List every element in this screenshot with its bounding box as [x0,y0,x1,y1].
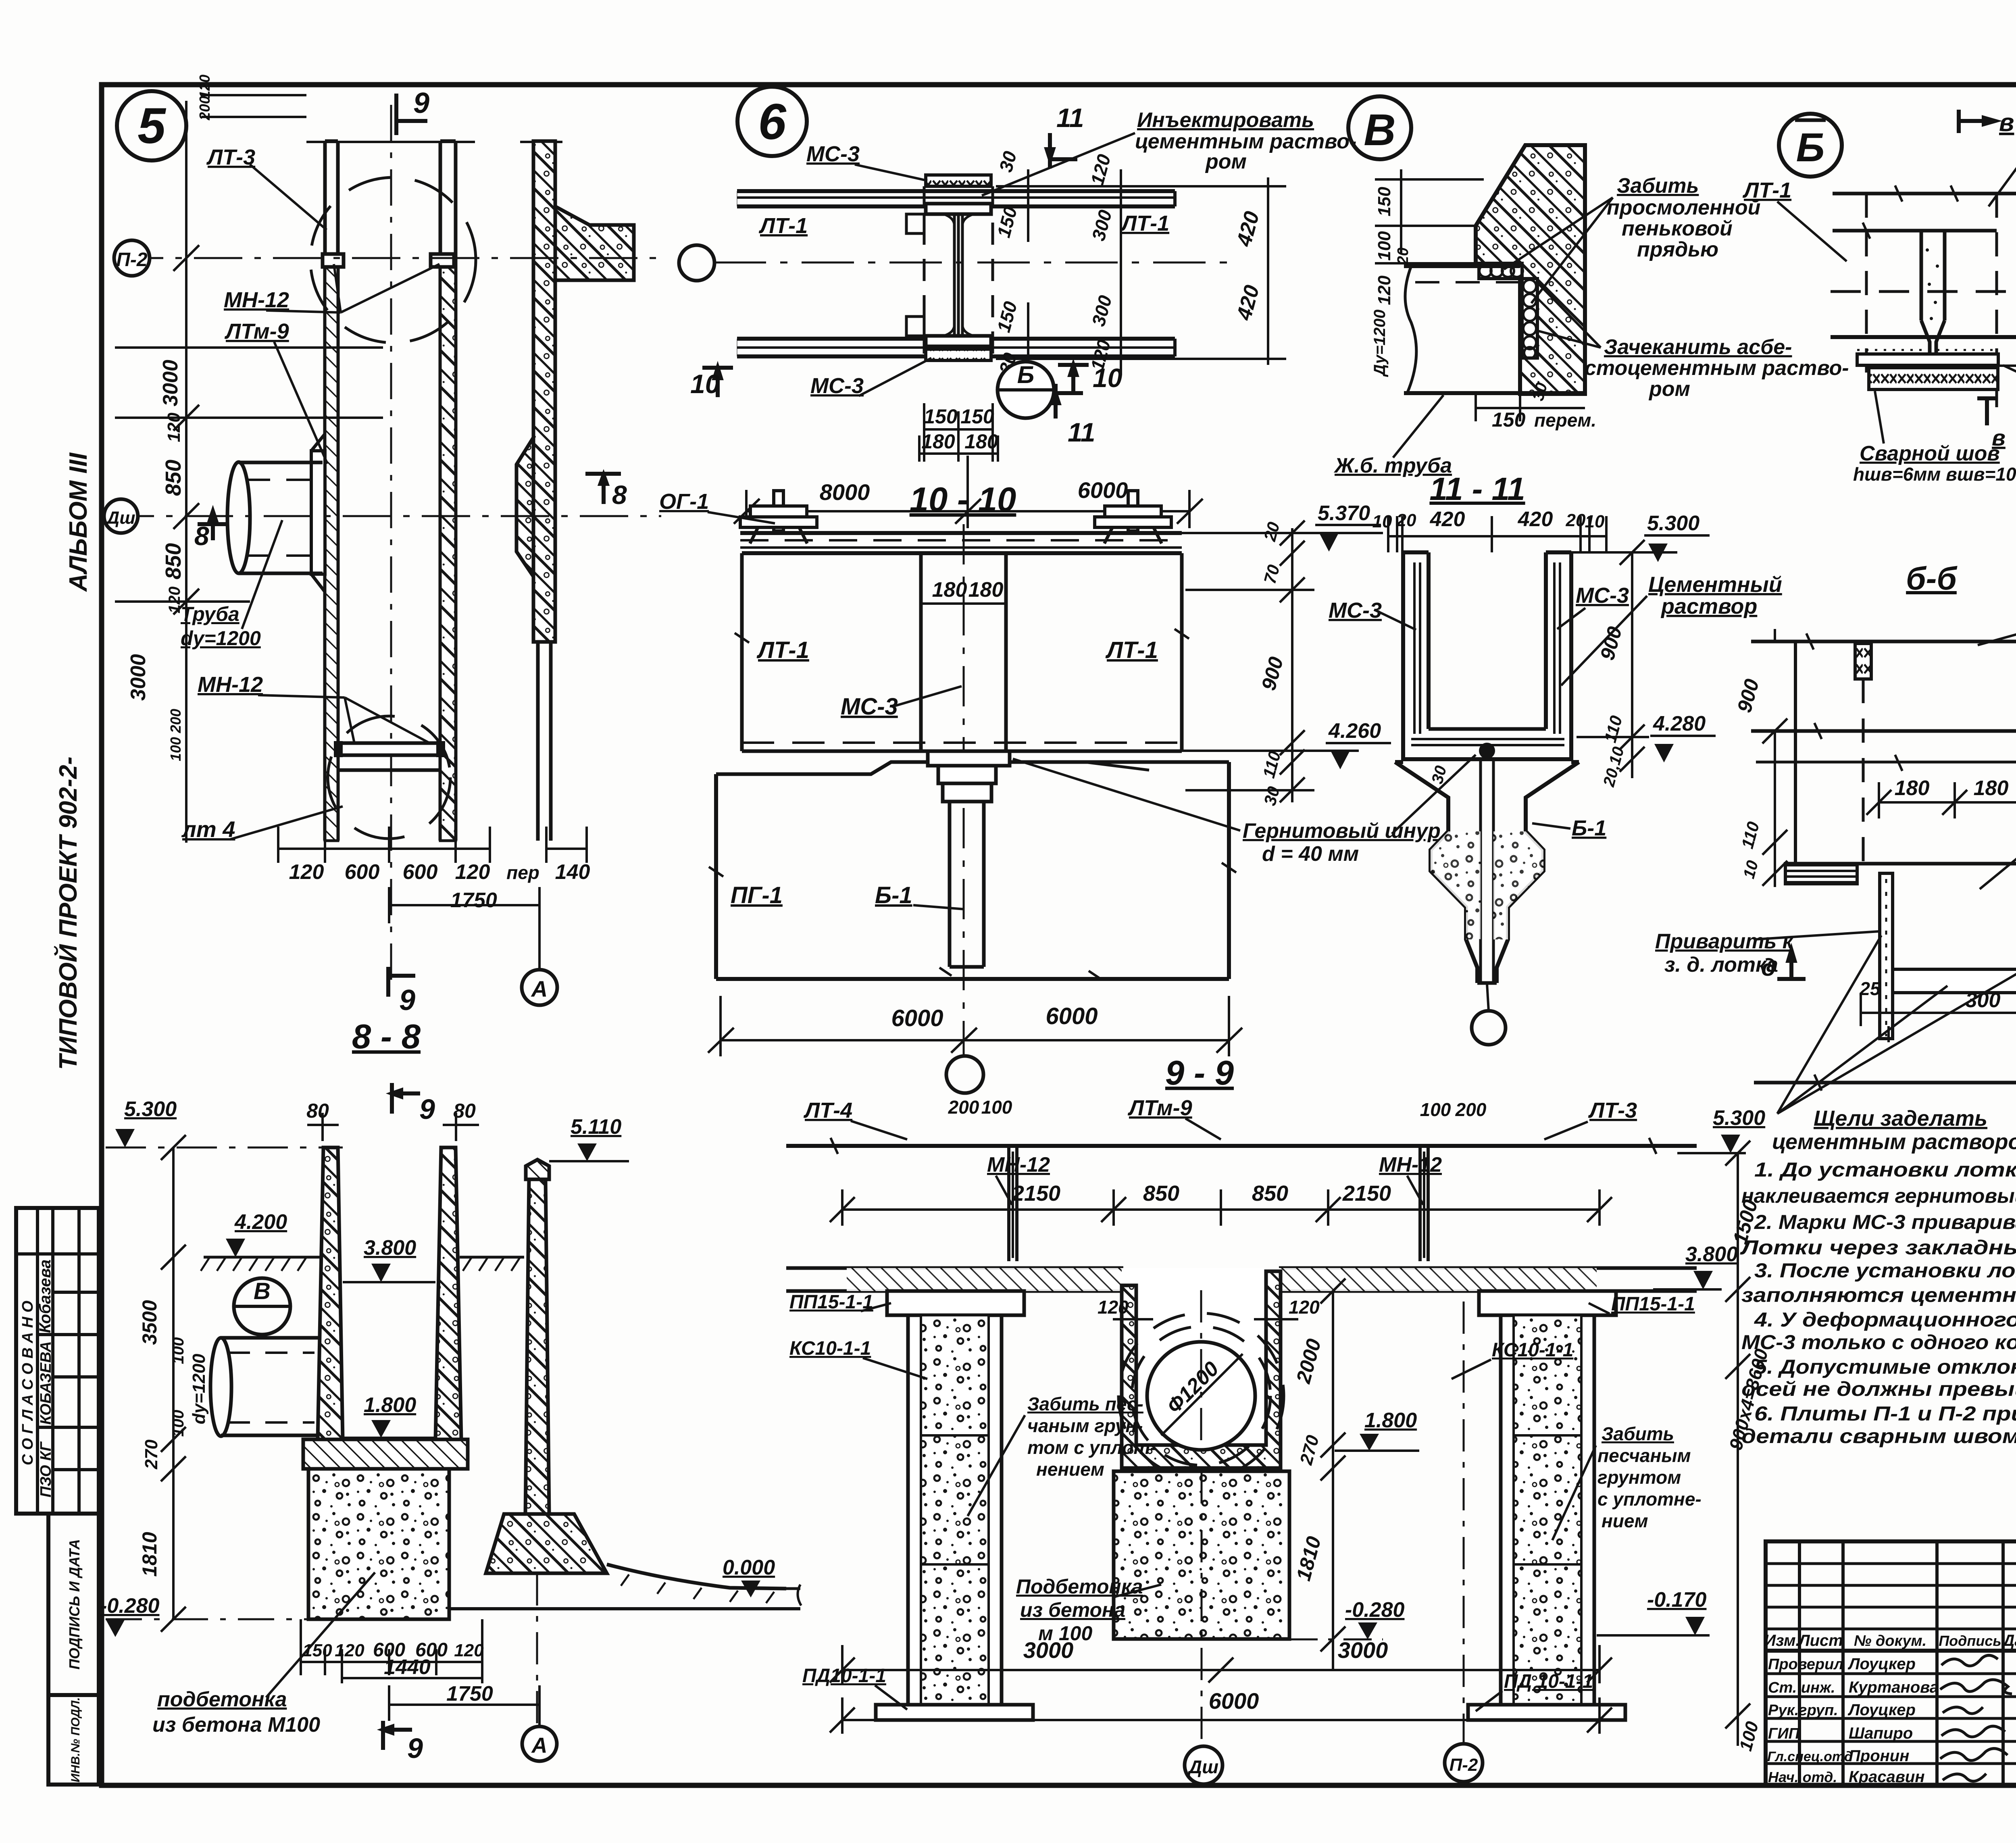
svg-text:20: 20 [1395,248,1412,265]
bottom dims [278,827,587,970]
svg-text:с уплотне-: с уплотне- [1597,1489,1702,1510]
centerline [390,105,392,980]
svg-text:100: 100 [167,737,184,761]
svg-text:перем.: перем. [1534,410,1596,431]
svg-text:ЛТ-1: ЛТ-1 [758,214,808,238]
svg-text:5: 5 [137,98,166,154]
svg-text:-0.280: -0.280 [100,1594,160,1618]
svg-text:прядью: прядью [1637,238,1718,261]
svg-text:6000: 6000 [1045,1003,1098,1029]
svg-text:КОБАЗЕВА: КОБАЗЕВА [37,1341,54,1424]
fill notes [1027,1393,1156,1480]
svg-text:Дш: Дш [1187,1756,1218,1777]
svg-text:наклеивается гернитовый шнур: наклеивается гернитовый шнур d = 40мм , … [1741,1185,2016,1207]
svg-text:420: 420 [1430,508,1465,531]
svg-text:10: 10 [690,369,720,399]
svg-text:9: 9 [419,1093,435,1125]
bottom dims [1476,393,1585,421]
svg-text:ГИП: ГИП [1768,1725,1800,1742]
svg-text:Забить пес-: Забить пес- [1027,1393,1143,1414]
svg-text:цементным раствором: цементным раствором [1772,1130,2016,1154]
svg-text:9: 9 [407,1733,423,1764]
svg-text:150: 150 [1492,408,1526,431]
svg-text:В: В [254,1278,271,1304]
v mark bottom [1977,398,1997,425]
beam plan lines [737,191,1175,356]
top line [786,1144,1697,1148]
bottom slab + subconcrete [303,1439,468,1469]
T stem [1921,231,1945,355]
svg-text:№ докум.: № докум. [1854,1633,1926,1649]
svg-text:420: 420 [1518,508,1553,531]
section mark 9 top [396,94,427,135]
svg-text:11: 11 [1068,417,1095,447]
svg-text:ПГ-1: ПГ-1 [731,882,783,908]
svg-text:120: 120 [1375,275,1394,305]
svg-text:5.370: 5.370 [1318,502,1370,525]
svg-text:600: 600 [345,860,380,884]
right dims [1577,540,1649,778]
svg-text:4.200: 4.200 [234,1210,287,1234]
corbel at Dsh [516,437,533,577]
corbel at P-2 [555,206,634,280]
svg-text:180: 180 [1895,777,1930,800]
svg-text:пер: пер [506,862,539,883]
svg-text:ТИПОВОЙ ПРОЕКТ 902-2-: ТИПОВОЙ ПРОЕКТ 902-2- [54,756,82,1070]
seat and beam [928,751,1010,967]
svg-text:100: 100 [169,1337,187,1364]
svg-text:А: А [531,976,548,1002]
section 8 marks [198,511,228,540]
svg-text:5.300: 5.300 [1713,1106,1765,1130]
svg-text:3. После установки лотков: 3. После установки лотков пазухи между н… [1754,1259,2016,1282]
svg-text:2150: 2150 [1012,1181,1060,1206]
svg-text:Лист: Лист [1797,1632,1843,1649]
svg-text:ЛТ-3: ЛТ-3 [206,145,255,169]
svg-text:С О Г Л А С О В А Н О: С О Г Л А С О В А Н О [19,1301,36,1465]
svg-text:Лотки через закладные детал: Лотки через закладные детали приваривают… [1740,1236,2016,1259]
mid dim chain [1320,1279,1345,1670]
svg-text:100: 100 [169,1410,187,1437]
svg-text:120: 120 [335,1641,364,1660]
svg-text:180: 180 [1974,777,2009,800]
svg-text:200: 200 [1455,1099,1487,1120]
svg-text:100: 100 [1420,1099,1451,1120]
svg-text:Гернитовый шнур: Гернитовый шнур [1243,819,1441,843]
svg-text:1750: 1750 [446,1682,493,1706]
svg-text:6000: 6000 [891,1005,943,1031]
svg-text:Сварной шов: Сварной шов [1860,442,2000,465]
svg-text:МН-12: МН-12 [224,288,289,312]
svg-text:180: 180 [964,430,998,453]
svg-text:Красавин: Красавин [1849,1768,1925,1786]
bottom dims [830,1645,1612,1734]
svg-text:150: 150 [302,1641,332,1660]
svg-text:Зачеканить асбе-: Зачеканить асбе- [1604,335,1792,359]
columns [887,1291,1024,1315]
svg-text:Б: Б [1017,361,1034,388]
svg-text:Дата: Дата [2002,1632,2016,1649]
top line [1751,633,2016,650]
left dim chain [1375,169,1484,263]
svg-text:100: 100 [1375,231,1394,261]
svg-text:6. Плиты П-1 и П-2 привари: 6. Плиты П-1 и П-2 привариваются к лотку… [1754,1402,2016,1425]
svg-text:ИНВ.№ ПОДЛ.: ИНВ.№ ПОДЛ. [69,1697,82,1782]
left dims [1762,629,1787,887]
180 180 dims [1866,782,2016,818]
svg-text:МН-12: МН-12 [1379,1153,1442,1177]
svg-text:8 - 8: 8 - 8 [352,1018,421,1056]
svg-text:3000: 3000 [159,360,182,406]
svg-text:9 - 9: 9 - 9 [1165,1054,1234,1092]
svg-text:Забить: Забить [1617,174,1699,198]
V circle [234,1278,290,1335]
top dims [1388,516,1606,552]
subconcrete [1114,1471,1289,1639]
axis [714,262,1230,264]
svg-text:200: 200 [196,96,213,121]
svg-text:нием: нием [1602,1510,1648,1531]
svg-text:Инъектировать: Инъектировать [1137,108,1314,132]
panel body [735,553,1189,751]
svg-text:0.000: 0.000 [723,1556,775,1579]
svg-text:ЛТ-1: ЛТ-1 [1742,178,1791,202]
svg-text:600: 600 [403,860,438,884]
oakum packing [1479,263,1537,358]
svg-text:Пронин: Пронин [1849,1747,1909,1765]
bottom line [1831,335,2016,339]
svg-text:5.300: 5.300 [124,1097,177,1121]
svg-text:Гл.спец.отд: Гл.спец.отд [1767,1749,1853,1764]
svg-text:10: 10 [1372,512,1392,531]
svg-text:1.800: 1.800 [1364,1409,1417,1432]
v section mark top [1958,110,1995,133]
pipe [227,462,323,573]
svg-text:270: 270 [142,1439,161,1470]
svg-text:Кобазева: Кобазева [36,1260,54,1333]
svg-text:просмоленной: просмоленной [1607,196,1760,219]
svg-text:Б-1: Б-1 [875,882,912,908]
svg-text:Лоуцкер: Лоуцкер [1847,1655,1916,1673]
svg-text:3000: 3000 [1338,1637,1388,1663]
svg-text:6: 6 [758,94,787,150]
A axis circle [536,1573,538,1727]
lower MH-12 plate [339,743,439,755]
svg-text:850: 850 [161,460,185,496]
OG-1 bolts [740,491,1171,544]
svg-text:осей не должны превышать: осей не должны превышать ± 5 мм. [1741,1378,2016,1400]
Dsh axis [106,515,661,517]
svg-text:6000: 6000 [1078,477,1128,503]
svg-text:песчаным: песчаным [1597,1445,1691,1466]
svg-text:детали сварным швом h= 6мм: детали сварным швом h= 6мм. [1741,1425,2016,1447]
svg-text:120: 120 [164,412,184,442]
svg-text:10 - 10: 10 - 10 [910,481,1016,519]
svg-text:80: 80 [306,1100,329,1122]
svg-text:200: 200 [948,1097,979,1118]
pipe circle [1147,1342,1255,1450]
signatures [1940,1655,2012,1781]
dim vertical chain x=462 [115,101,383,843]
svg-text:ЛТм-9: ЛТм-9 [224,319,289,344]
svg-text:200: 200 [167,709,184,733]
svg-text:Изм.: Изм. [1764,1632,1800,1649]
P-2 axis [115,257,661,259]
svg-text:том с уплот-: том с уплот- [1027,1437,1156,1458]
svg-text:Ст. инж.: Ст. инж. [1768,1679,1835,1696]
center joint [921,553,1006,751]
svg-text:з. д. лотка: з. д. лотка [1664,953,1778,977]
bottom dims [734,403,1203,528]
svg-text:d = 40 мм: d = 40 мм [1262,842,1359,866]
svg-text:ром: ром [1648,377,1690,401]
svg-text:4.280: 4.280 [1653,712,1706,735]
concrete mass [1476,145,1585,394]
svg-text:1750: 1750 [450,889,497,912]
svg-text:1440: 1440 [384,1656,431,1679]
svg-text:ЛТ-1: ЛТ-1 [756,637,809,663]
svg-text:Рук.груп.: Рук.груп. [1768,1702,1838,1719]
svg-text:4.260: 4.260 [1328,719,1381,743]
walls [318,1147,343,1439]
svg-text:грунтом: грунтом [1597,1467,1681,1488]
svg-text:П-2: П-2 [116,249,148,271]
svg-text:КС10-1-1: КС10-1-1 [789,1338,871,1359]
svg-text:МС-3 только с одного конца: МС-3 только с одного конца. [1741,1331,2016,1354]
svg-text:1. До установки лотков на: 1. До установки лотков на перегородочные… [1754,1158,2016,1181]
svg-text:МС-3: МС-3 [841,693,898,720]
svg-text:2. Марки МС-3 привариваются: 2. Марки МС-3 привариваются к закладным … [1754,1211,2016,1233]
floor [607,1564,786,1589]
dim chains right of joint [996,169,1286,375]
top dim line [202,95,562,142]
svg-text:5.110: 5.110 [571,1115,621,1139]
svg-text:Щели заделать: Щели заделать [1814,1106,1987,1131]
center joint zone [924,186,993,359]
svg-text:180: 180 [921,430,955,453]
MC-3 liners [1411,562,1564,745]
svg-text:1810: 1810 [138,1532,161,1576]
svg-text:11 - 11: 11 - 11 [1429,471,1525,507]
svg-text:hшв=6мм вшв=10мм: hшв=6мм вшв=10мм [1853,464,2016,485]
svg-text:Труба: Труба [181,603,240,625]
svg-text:Дш: Дш [105,508,135,528]
axis circles [1201,1471,1203,1747]
svg-text:пеньковой: пеньковой [1622,217,1733,240]
svg-text:Куртанова: Куртанова [1849,1678,1939,1696]
9 marks [392,1083,420,1114]
svg-text:Цементный: Цементный [1648,573,1782,597]
svg-text:ОГ-1: ОГ-1 [659,489,709,514]
svg-text:нением: нением [1036,1459,1104,1480]
svg-text:в: в [1992,425,2006,450]
svg-text:dу=1200: dу=1200 [189,1354,209,1424]
svg-text:Б: Б [1796,125,1825,170]
svg-text:25: 25 [1859,978,1881,999]
svg-text:150: 150 [924,405,958,428]
svg-text:в: в [1999,109,2014,137]
svg-text:-0.280: -0.280 [1345,1598,1405,1622]
svg-text:3000: 3000 [127,654,150,701]
svg-text:ПД 10-1-1: ПД 10-1-1 [1504,1671,1593,1692]
svg-text:МН-12: МН-12 [198,673,263,697]
svg-text:20: 20 [1566,510,1586,530]
A-axis wall [533,141,555,642]
top slab lines [740,533,1182,553]
dashed pipe circles [310,177,476,343]
svg-text:8000: 8000 [820,479,870,505]
svg-text:9: 9 [399,984,415,1016]
svg-text:заполняются цементным раст: заполняются цементным раствором. [1741,1284,2016,1306]
svg-text:МН-12: МН-12 [987,1153,1050,1177]
svg-text:раствор: раствор [1660,594,1757,618]
svg-text:ПЗО КГ: ПЗО КГ [37,1441,54,1497]
plate + xx bar [1857,349,1998,351]
svg-text:120: 120 [455,860,490,884]
svg-text:8: 8 [194,521,209,551]
svg-text:120: 120 [1098,1297,1129,1318]
svg-text:120: 120 [289,860,324,884]
svg-text:4. У деформационного шва ло: 4. У деформационного шва лотки ЛТ-1 прив… [1754,1308,2016,1331]
left dim chain [161,1135,186,1632]
svg-text:3500: 3500 [138,1300,161,1345]
right dim chain [1185,521,1314,802]
B circle [998,362,1054,418]
svg-text:1.800: 1.800 [364,1393,416,1417]
svg-text:КС10-1-1: КС10-1-1 [1492,1339,1573,1361]
svg-text:3000: 3000 [1023,1637,1074,1663]
svg-text:ром: ром [1205,150,1247,173]
svg-text:ЛТм-9: ЛТм-9 [1127,1096,1192,1120]
svg-text:Б-1: Б-1 [1572,816,1606,840]
svg-text:100: 100 [981,1097,1012,1118]
trough walls [1403,552,1571,759]
svg-text:180: 180 [968,578,1004,602]
top slab [786,1268,1697,1291]
beam below [1395,762,1579,983]
bottom dim [708,996,1242,1056]
svg-text:Шапиро: Шапиро [1849,1724,1913,1742]
svg-text:850: 850 [1143,1181,1179,1206]
svg-text:ПОДПИСЬ И ДАТА: ПОДПИСЬ И ДАТА [66,1539,83,1670]
svg-text:б-б: б-б [1906,560,1958,596]
svg-text:3.800: 3.800 [1685,1243,1738,1266]
svg-text:120: 120 [454,1641,484,1660]
I-beam [926,175,991,186]
svg-text:5. Допустимые отклонения пр: 5. Допустимые отклонения при монтаже лот… [1754,1356,2016,1378]
svg-text:150: 150 [960,405,994,428]
svg-text:МС-3: МС-3 [806,142,860,166]
right dim chain [2000,223,2016,378]
svg-text:-0.170: -0.170 [1647,1588,1707,1612]
svg-text:20: 20 [1396,510,1416,530]
svg-text:6000: 6000 [1209,1688,1259,1714]
bottom assembly [1785,864,1857,884]
channel trough [1122,1268,1281,1468]
PG-1 slab [709,762,1236,979]
svg-text:850: 850 [161,543,185,579]
svg-text:9: 9 [413,87,429,119]
bottom dims [301,1619,539,1727]
svg-text:180: 180 [932,578,967,602]
svg-text:ЛТ-1: ЛТ-1 [1120,211,1169,235]
svg-text:Проверил: Проверил [1768,1656,1843,1673]
svg-text:Ду=1200: Ду=1200 [1371,310,1389,377]
svg-text:10: 10 [1585,512,1605,531]
svg-text:120: 120 [1289,1297,1320,1318]
anchor pins [1009,1147,1428,1261]
MH-12 plates upper [323,254,344,267]
pipe [1404,266,1585,393]
svg-text:МС-3: МС-3 [810,374,864,398]
svg-text:5.300: 5.300 [1647,512,1699,535]
svg-text:3.800: 3.800 [364,1236,416,1260]
svg-text:850: 850 [1252,1181,1288,1206]
svg-text:Забить: Забить [1602,1423,1674,1444]
svg-text:140: 140 [555,860,590,884]
svg-text:Лоуцкер: Лоуцкер [1847,1701,1916,1719]
svg-text:П-2: П-2 [1450,1755,1478,1775]
top lines [1833,185,2016,239]
svg-text:2150: 2150 [1342,1181,1391,1206]
svg-text:120: 120 [196,75,213,99]
25 300 25 [1861,993,2016,1042]
svg-text:ПП15-1-1: ПП15-1-1 [789,1291,873,1313]
svg-text:8: 8 [612,480,627,510]
svg-text:А: А [531,1733,548,1758]
svg-text:АЛЬБОМ III: АЛЬБОМ III [65,452,92,592]
svg-text:dу=1200: dу=1200 [181,627,261,650]
svg-text:Приварить к: Приварить к [1655,930,1794,953]
svg-text:150: 150 [1375,187,1394,217]
svg-text:Нач. отд.: Нач. отд. [1768,1769,1837,1785]
svg-text:ЛТ-4: ЛТ-4 [803,1098,852,1122]
bottom section mark 9 [388,967,415,997]
wall opening frame at pipe level [311,451,325,574]
svg-text:подбетонка: подбетонка [157,1688,287,1711]
top dim row [830,1189,1612,1226]
svg-text:стоцементным раство-: стоцементным раство- [1585,356,1849,380]
svg-text:из бетона М100: из бетона М100 [152,1713,320,1737]
pipe [210,1338,319,1436]
wedge foundation [486,1514,607,1573]
svg-text:ЛТ-1: ЛТ-1 [1105,637,1158,663]
svg-text:чаным грун-: чаным грун- [1027,1415,1143,1436]
svg-text:В: В [1364,105,1395,155]
svg-text:лт 4: лт 4 [181,816,235,842]
svg-text:МС-3: МС-3 [1576,583,1629,608]
section marks 10 [702,368,733,397]
svg-text:ЛТ-3: ЛТ-3 [1588,1098,1637,1122]
svg-text:из бетона: из бетона [1020,1599,1125,1621]
svg-text:ПП15-1-1: ПП15-1-1 [1611,1293,1695,1315]
svg-text:11: 11 [1056,103,1084,133]
svg-text:Подпись: Подпись [1939,1633,2001,1649]
channel walls [325,141,456,841]
